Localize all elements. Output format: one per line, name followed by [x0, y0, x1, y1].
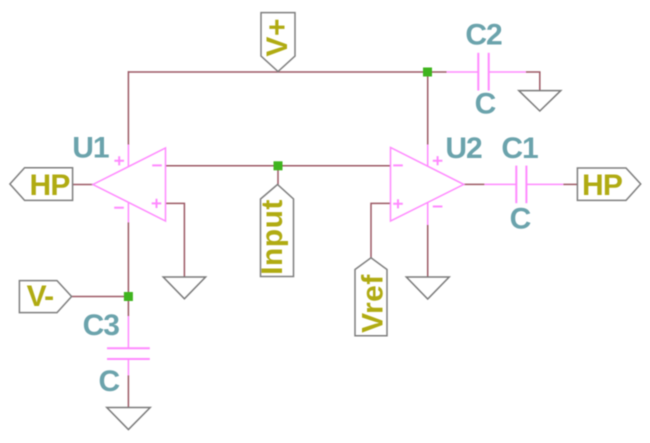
- svg-text:C2: C2: [465, 19, 502, 52]
- capacitor C1: [484, 166, 563, 204]
- svg-text:C: C: [510, 203, 531, 236]
- svg-text:Input: Input: [256, 199, 289, 275]
- wire U1 noninv to ground: [166, 203, 185, 277]
- wire C2 right to ground: [526, 72, 540, 91]
- wire U1 output to HP: [73, 184, 93, 186]
- svg-text:HP: HP: [582, 169, 622, 202]
- svg-text:V-: V-: [27, 280, 54, 313]
- port HP left: [10, 168, 73, 201]
- svg-text:C: C: [98, 365, 119, 398]
- wire input row U1 inv to U2 inv: [166, 165, 391, 167]
- port HP right: [577, 168, 640, 200]
- port Vref: [355, 258, 387, 336]
- op-amp U1: [93, 145, 166, 223]
- wire U2 V+ drop: [427, 72, 429, 145]
- svg-text:C1: C1: [501, 132, 538, 165]
- op-amp U2: [391, 145, 464, 226]
- wire U2 V- to ground: [427, 225, 429, 277]
- capacitor C2: [447, 53, 526, 91]
- ground right of C2: [519, 91, 561, 111]
- ground below U1: [163, 277, 205, 299]
- wire U2 noninv to Vref: [371, 203, 391, 257]
- junction node V- / C3: [124, 292, 133, 301]
- wire C3 to ground: [127, 375, 129, 407]
- port V-: [19, 281, 71, 313]
- junction node input row: [274, 161, 283, 170]
- ground below C3: [107, 408, 150, 430]
- wire U1 V- down to node: [127, 222, 129, 296]
- svg-text:HP: HP: [29, 169, 69, 202]
- junction node V+ rail / U2: [423, 68, 432, 77]
- port V+: [261, 13, 295, 72]
- port Input: [261, 185, 294, 277]
- wire V+ rail left drop: [127, 71, 129, 144]
- wire U2 output to C1: [464, 183, 485, 185]
- svg-text:Vref: Vref: [357, 274, 390, 333]
- wire V- port to node: [72, 296, 129, 298]
- wire Input port stub: [277, 166, 279, 185]
- svg-text:U2: U2: [445, 132, 482, 165]
- svg-text:U1: U1: [72, 132, 109, 165]
- wire C1 to HP right: [563, 183, 577, 185]
- svg-text:C3: C3: [83, 309, 120, 342]
- svg-text:C: C: [475, 88, 496, 121]
- ground below U2: [406, 277, 449, 299]
- capacitor C3: [107, 316, 150, 375]
- wire node to C3: [127, 297, 129, 317]
- wire V+ rail horizontal: [128, 71, 446, 73]
- svg-text:V+: V+: [261, 18, 294, 57]
